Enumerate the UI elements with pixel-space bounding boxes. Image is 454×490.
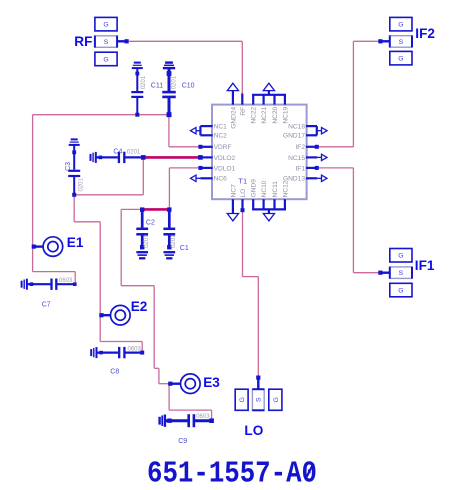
svg-text:NC2: NC2: [214, 133, 228, 140]
svg-text:NC15: NC15: [288, 155, 305, 162]
svg-text:IF2: IF2: [415, 26, 435, 41]
svg-text:NC7: NC7: [230, 184, 237, 198]
svg-text:E2: E2: [131, 299, 148, 314]
svg-text:0201: 0201: [172, 75, 178, 89]
svg-text:NC18: NC18: [288, 124, 305, 131]
svg-text:NC21: NC21: [261, 106, 268, 123]
svg-text:NC22: NC22: [251, 106, 258, 123]
svg-text:651-1557-A0: 651-1557-A0: [147, 457, 317, 490]
svg-text:IF1: IF1: [415, 258, 435, 273]
svg-text:GND9: GND9: [251, 179, 258, 198]
svg-text:LO: LO: [240, 189, 247, 198]
svg-text:0201: 0201: [144, 234, 150, 248]
svg-text:S: S: [399, 270, 404, 277]
svg-text:0201: 0201: [171, 234, 177, 248]
svg-text:NC12: NC12: [282, 180, 289, 197]
svg-text:0603: 0603: [59, 278, 73, 284]
svg-text:C1: C1: [180, 245, 189, 252]
svg-text:VDLO2: VDLO2: [214, 155, 236, 162]
svg-text:NC19: NC19: [282, 106, 289, 123]
svg-text:0603: 0603: [196, 414, 210, 420]
svg-text:IF1: IF1: [295, 165, 305, 172]
svg-text:C3: C3: [65, 162, 72, 171]
svg-text:G: G: [398, 22, 403, 29]
svg-text:0603: 0603: [128, 346, 142, 352]
svg-text:C9: C9: [178, 438, 187, 445]
svg-text:S: S: [104, 39, 109, 46]
svg-text:RF: RF: [74, 34, 92, 49]
svg-text:G: G: [273, 397, 280, 402]
svg-text:G: G: [398, 253, 403, 260]
svg-text:T1: T1: [238, 177, 247, 186]
svg-text:0201: 0201: [127, 150, 141, 156]
svg-text:G: G: [398, 56, 403, 63]
svg-text:0201: 0201: [79, 177, 85, 191]
svg-text:LO: LO: [244, 423, 263, 438]
svg-text:NC6: NC6: [214, 176, 228, 183]
svg-text:S: S: [256, 397, 263, 402]
svg-text:0201: 0201: [141, 75, 147, 89]
svg-text:G: G: [103, 56, 108, 63]
svg-text:C11: C11: [151, 83, 163, 90]
svg-text:C2: C2: [146, 219, 155, 226]
svg-text:IF2: IF2: [295, 144, 305, 151]
svg-text:E1: E1: [67, 235, 84, 250]
svg-text:G: G: [398, 287, 403, 294]
svg-text:G: G: [239, 397, 246, 402]
svg-text:NC10: NC10: [261, 180, 268, 197]
svg-text:G: G: [103, 22, 108, 29]
svg-text:E3: E3: [203, 375, 220, 390]
svg-text:VDLO1: VDLO1: [214, 165, 236, 172]
svg-text:C10: C10: [182, 83, 195, 90]
svg-text:C8: C8: [110, 369, 119, 376]
svg-text:C4: C4: [113, 149, 122, 156]
svg-text:C7: C7: [42, 301, 51, 308]
svg-text:NC1: NC1: [214, 124, 228, 131]
svg-text:NC11: NC11: [272, 181, 279, 198]
svg-text:GND17: GND17: [283, 133, 305, 140]
svg-text:GND24: GND24: [230, 106, 237, 128]
svg-text:NC20: NC20: [272, 106, 279, 123]
svg-text:VDRF: VDRF: [214, 144, 232, 151]
svg-text:S: S: [399, 39, 404, 46]
svg-text:RF: RF: [240, 107, 247, 116]
